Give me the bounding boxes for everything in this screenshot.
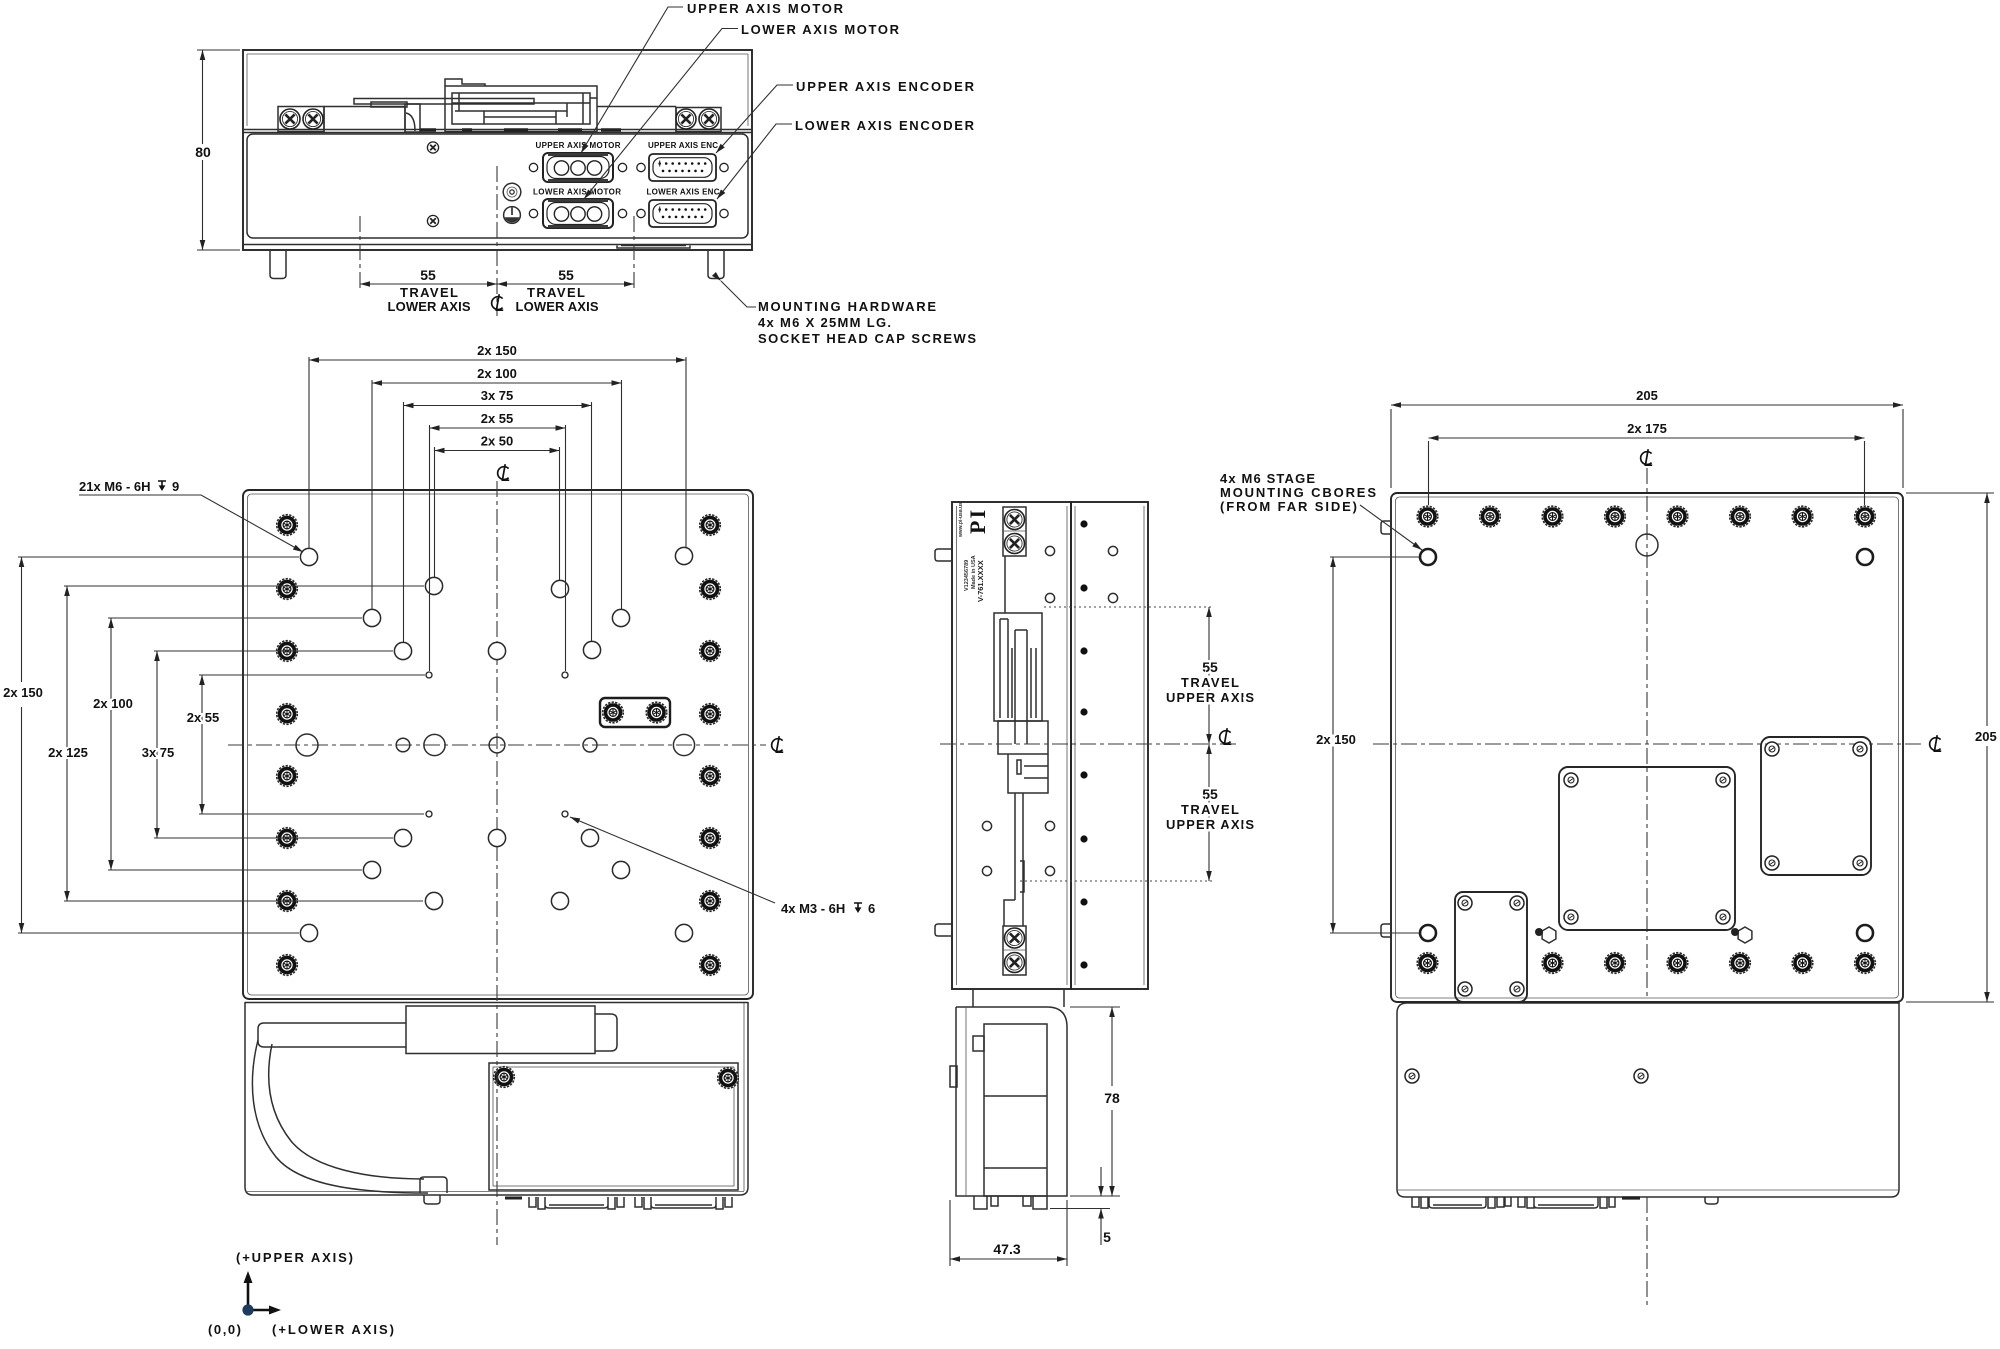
plan base inner lines (245, 1002, 744, 1192)
mechanism: actuator inner frame (452, 93, 590, 124)
centerline row holes (296, 734, 318, 756)
leader 21x M6 (79, 495, 303, 552)
dim 3x75 top line (404, 405, 592, 407)
panel screw upper (427, 142, 438, 153)
dim 205 right line (1986, 493, 1988, 1002)
right foot (708, 250, 724, 279)
bottom base housing (1397, 1003, 1899, 1197)
svg-text:80: 80 (195, 144, 211, 160)
left screw column (277, 515, 298, 536)
svg-text:Made in USA: Made in USA (971, 555, 977, 589)
dim 2x55 top line (430, 427, 566, 429)
leader UPPER AXIS MOTOR (581, 7, 683, 153)
bottom horizontal centerline (1373, 743, 1925, 745)
mechanism: left clamp bracket (278, 107, 324, 132)
left dim 2x55 line (201, 675, 203, 814)
left foot (270, 250, 286, 279)
connector shadow mark (505, 1197, 522, 1200)
leader LOWER AXIS MOTOR (584, 29, 738, 200)
centerline symbol bottom right (1930, 735, 1942, 751)
dim 78 extension lines (1070, 1007, 1120, 1196)
motor detail marks (973, 1036, 1047, 1168)
dim 47.3 extension lines (950, 1200, 1067, 1266)
svg-text:55: 55 (558, 267, 574, 283)
side view body (952, 502, 1071, 989)
top screws (1005, 510, 1025, 530)
mechanism: rail step (371, 102, 407, 107)
M3 holes (426, 672, 432, 678)
leader mounting hardware (721, 281, 756, 307)
connector B below base (plan) (635, 1197, 732, 1209)
svg-text:3x 75: 3x 75 (142, 745, 175, 760)
svg-text:(+UPPER AXIS): (+UPPER AXIS) (236, 1250, 353, 1265)
svg-text:3x 75: 3x 75 (481, 388, 514, 403)
bottom connector B (1518, 1197, 1615, 1208)
leader LOWER AXIS ENCODER (717, 124, 792, 199)
bottom connector A (1412, 1197, 1511, 1208)
motor body (side) (984, 1024, 1047, 1196)
side body inner edge (957, 506, 1068, 985)
hex hole right (1738, 927, 1752, 943)
svg-text:MOUNTING HARDWARE: MOUNTING HARDWARE (758, 299, 936, 314)
actuator lower bracket (1008, 754, 1048, 793)
limit switch insert (600, 698, 670, 727)
counterbores (1420, 549, 1436, 565)
motor cover plate (plan) (489, 1063, 738, 1190)
svg-text:V-761.XXXX: V-761.XXXX (976, 560, 985, 602)
svg-text:55: 55 (1202, 659, 1218, 675)
right clamp screw 1 (676, 109, 696, 129)
dim 2x50 top line (435, 450, 560, 452)
dim 5 extension line (1050, 1196, 1110, 1209)
side right plate (1071, 502, 1148, 989)
svg-text:205: 205 (1636, 388, 1658, 403)
front centerline (496, 166, 498, 316)
left extension legs (18, 557, 425, 933)
bottom screw bracket (1003, 926, 1026, 975)
front view inner edge lines (247, 54, 748, 126)
leader 4x M6 (1360, 505, 1422, 550)
leader 4x M3 (570, 817, 775, 903)
front view outer housing (243, 50, 752, 250)
actuator link line (1004, 556, 1006, 613)
side plate inner edges (1075, 506, 1144, 985)
dim 47.3 line (950, 1258, 1067, 1260)
mechanism: rail top bar (354, 99, 534, 105)
svg-text:4x M3 - 6H: 4x M3 - 6H (781, 901, 845, 916)
plan base housing (245, 1002, 748, 1195)
cable end tab (420, 1177, 447, 1204)
svg-text:V123456789: V123456789 (964, 560, 970, 591)
travel ref dotted lower (1020, 880, 1214, 882)
bottom tab mark dark (1622, 1196, 1640, 1199)
mechanism: lower rail plate (324, 107, 405, 132)
middle cover screws (1564, 773, 1578, 787)
travel dimension lines (360, 283, 634, 285)
left cover screws (1458, 896, 1472, 910)
dowel dots column (1080, 520, 1087, 968)
svg-text:4x M6 X 25MM LG.: 4x M6 X 25MM LG. (758, 315, 891, 330)
svg-text:2x 125: 2x 125 (48, 745, 88, 760)
svg-text:2x 100: 2x 100 (477, 366, 517, 381)
svg-text:78: 78 (1104, 1090, 1120, 1106)
right cover plate (1761, 737, 1871, 875)
bottom base centerline below (1646, 1197, 1648, 1308)
actuator foot (1004, 900, 1023, 926)
hex holes lower (982, 821, 991, 830)
side horizontal centerline (940, 743, 1240, 745)
bottom plate inner edge (1396, 497, 1899, 998)
top center hole (1636, 534, 1658, 556)
travel ref dotted upper (1044, 606, 1214, 608)
svg-text:www.pi-usa.us: www.pi-usa.us (958, 502, 964, 538)
svg-text:2x 100: 2x 100 (93, 696, 133, 711)
left cover plate (1455, 892, 1527, 1002)
panel screw lower (427, 215, 438, 226)
dim 205 right extension legs (1906, 493, 1994, 1002)
plan horizontal centerline (228, 744, 766, 746)
dim 2x150 top line (309, 359, 686, 361)
motor cover inner line (493, 1067, 734, 1186)
plan plate (243, 490, 753, 999)
mechanism: carriage bellows arc (406, 113, 415, 131)
actuator mid block (998, 721, 1048, 754)
svg-text:(0,0): (0,0) (208, 1322, 241, 1337)
travel dimension line (1208, 607, 1210, 881)
left clamp screw 2 (303, 109, 323, 129)
svg-text:UPPER AXIS MOTOR: UPPER AXIS MOTOR (536, 141, 621, 150)
svg-text:LOWER AXIS ENCODER: LOWER AXIS ENCODER (795, 118, 975, 133)
dim 205 top line (1391, 404, 1903, 406)
side left tab top (935, 549, 952, 561)
svg-text:LOWER AXIS: LOWER AXIS (388, 299, 471, 314)
left dim 2x100 line (110, 618, 112, 870)
centerline symbol front (492, 294, 504, 310)
bottom vertical centerline (1646, 468, 1648, 1000)
dimension 80 line (202, 50, 204, 250)
svg-text:LOWER AXIS MOTOR: LOWER AXIS MOTOR (741, 22, 900, 37)
mechanism: carriage block (405, 104, 420, 132)
carriage hook (595, 1014, 617, 1051)
origin dot (242, 1304, 253, 1315)
bottom plate left tab bottom (1381, 924, 1391, 937)
left dim 2x150 line (21, 557, 23, 933)
bottom tab small (1705, 1197, 1718, 1204)
svg-text:47.3: 47.3 (993, 1241, 1020, 1257)
dim 2x150 left extension legs (1330, 557, 1419, 933)
bottom base screw right (1634, 1069, 1648, 1083)
mechanism: actuator end cap (583, 93, 597, 124)
M6 holes upper half (300, 548, 317, 565)
svg-text:(FROM FAR SIDE): (FROM FAR SIDE) (1220, 499, 1357, 514)
left dim 2x125 line (66, 586, 68, 901)
svg-text:TRAVEL: TRAVEL (527, 285, 585, 300)
lower axis encoder connector (637, 200, 728, 227)
svg-text:2x 175: 2x 175 (1627, 421, 1667, 436)
dimension 80 extension lines (197, 50, 240, 250)
centerline symbol bottom top (1641, 449, 1653, 465)
hex hole left (1542, 927, 1556, 943)
bottom plate (1391, 493, 1903, 1002)
actuator outer body (side) (994, 613, 1042, 721)
motor feet tabs (974, 1196, 1047, 1209)
motor cover screw left (494, 1067, 515, 1088)
motor housing inner edge (965, 1007, 967, 1196)
M6 holes lower half (394, 829, 411, 846)
svg-text:LOWER AXIS ENC: LOWER AXIS ENC (647, 188, 720, 197)
hex holes upper (1045, 546, 1054, 555)
svg-text:UPPER AXIS: UPPER AXIS (1166, 690, 1254, 705)
svg-text:LOWER AXIS: LOWER AXIS (516, 299, 599, 314)
svg-text:2x 55: 2x 55 (187, 710, 220, 725)
motor housing left tab (950, 1066, 957, 1087)
svg-text:9: 9 (172, 479, 179, 494)
top extension legs (309, 357, 686, 671)
mechanism: right clamp bracket (676, 108, 721, 132)
front view divider line (243, 130, 752, 133)
dim 2x150 left line (1332, 557, 1334, 933)
insert screw left (603, 702, 624, 723)
plan base top edge (245, 1002, 748, 1004)
dim 5 line (1100, 1167, 1102, 1245)
right screw column (700, 515, 721, 536)
bottom plate left tab top (1381, 521, 1391, 534)
svg-text:SOCKET HEAD CAP SCREWS: SOCKET HEAD CAP SCREWS (758, 331, 976, 346)
dim 78 line (1111, 1007, 1113, 1196)
ground symbol (504, 207, 521, 224)
left clamp screw 1 (280, 109, 300, 129)
svg-text:TRAVEL: TRAVEL (1181, 675, 1239, 690)
mechanism: actuator rails (452, 93, 590, 124)
svg-text:UPPER AXIS ENC: UPPER AXIS ENC (648, 141, 718, 150)
banana jack (503, 183, 521, 201)
svg-text:55: 55 (1202, 786, 1218, 802)
bottom base inner line (1397, 1189, 1899, 1191)
middle cover plate (1559, 767, 1735, 930)
svg-text:TRAVEL: TRAVEL (1181, 802, 1239, 817)
mechanism: actuator body (445, 86, 597, 132)
centerline symbol plan top (498, 464, 510, 480)
right clamp screw 2 (699, 109, 719, 129)
upper axis motor connector (529, 153, 626, 182)
connector A below base (plan) (529, 1197, 624, 1209)
upper axis encoder connector (637, 154, 728, 181)
bottom screws (1005, 928, 1025, 948)
travel extension line right (633, 216, 635, 292)
upper axis arrow (247, 1280, 250, 1308)
plan vertical centerline (496, 481, 498, 1245)
carriage body (406, 1006, 595, 1054)
svg-text:LOWER AXIS MOTOR: LOWER AXIS MOTOR (533, 188, 621, 197)
top screw bracket (1003, 507, 1026, 556)
svg-text:2x 55: 2x 55 (481, 411, 514, 426)
svg-text:5: 5 (1103, 1229, 1111, 1245)
svg-text:205: 205 (1975, 729, 1997, 744)
svg-text:55: 55 (420, 267, 436, 283)
svg-text:UPPER AXIS: UPPER AXIS (1166, 817, 1254, 832)
svg-text:2x 150: 2x 150 (3, 685, 43, 700)
lower axis arrow (250, 1309, 272, 1312)
dim 205 top extension legs (1391, 409, 1903, 488)
dim 2x175 extension legs (1429, 441, 1865, 505)
bottom base screw left (1405, 1069, 1419, 1083)
side left tab bottom (935, 924, 952, 936)
mechanism: right rail plate (597, 107, 676, 132)
svg-text:21x M6 - 6H: 21x M6 - 6H (79, 479, 151, 494)
svg-text:UPPER AXIS ENCODER: UPPER AXIS ENCODER (796, 79, 975, 94)
motor housing neck (973, 989, 1064, 1007)
plan plate inner edge (248, 494, 749, 995)
svg-text:PI: PI (965, 508, 990, 534)
lower axis motor connector (529, 199, 626, 228)
dim 2x175 line (1429, 437, 1865, 439)
mechanism: actuator top step (445, 79, 485, 86)
svg-text:4x M6 STAGE: 4x M6 STAGE (1220, 471, 1315, 486)
cable loop outer (252, 1040, 428, 1193)
front panel bottom lip (243, 245, 752, 249)
cable loop inner (269, 1044, 424, 1179)
bottom screw row (1417, 953, 1438, 974)
left dim 3x75 line (156, 651, 158, 838)
front panel face (247, 134, 748, 238)
svg-text:6: 6 (868, 901, 875, 916)
insert screw right (646, 702, 667, 723)
svg-text:TRAVEL: TRAVEL (400, 285, 458, 300)
svg-text:2x 150: 2x 150 (1316, 732, 1356, 747)
motor cover screw right (718, 1068, 739, 1089)
centerline symbol plan right (772, 736, 784, 752)
actuator inner bars (side) (1000, 619, 1036, 744)
dim 2x100 top line (372, 382, 622, 384)
svg-text:2x 150: 2x 150 (477, 343, 517, 358)
right cover screws (1765, 742, 1779, 756)
carriage arm bar (258, 1023, 406, 1047)
top screw row (1417, 506, 1438, 527)
svg-text:2x 50: 2x 50 (481, 434, 514, 449)
actuator rod (1015, 793, 1024, 900)
leader UPPER AXIS ENCODER (716, 85, 793, 153)
mechanism shadow marks (420, 128, 621, 131)
centerline symbol side (1220, 728, 1232, 744)
travel extension line left (359, 216, 361, 292)
motor housing (side) (956, 1007, 1067, 1196)
